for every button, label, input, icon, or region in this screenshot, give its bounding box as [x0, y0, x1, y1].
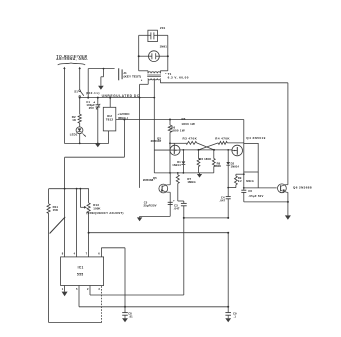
- diode D2: [227, 150, 229, 162]
- wire - jack feed horizontal: [88, 68, 114, 70]
- node - right base node: [213, 149, 215, 151]
- wire - +12V bus: [116, 119, 244, 121]
- wire - pot top bus: [49, 188, 89, 190]
- svg-text:25μF/25V: 25μF/25V: [144, 204, 157, 208]
- node - C1 bottom: [97, 143, 99, 145]
- wire - IC pin line: [76, 189, 78, 257]
- transformer T1 primary winding: [148, 72, 160, 74]
- adjust slash: [50, 217, 66, 234]
- wire - T1 left line down to Q5 base: [139, 84, 141, 188]
- wire - neon right lead: [159, 55, 168, 57]
- wire - bottom left return: [49, 322, 102, 324]
- node - jack tap: [103, 68, 105, 70]
- capacitor C6: [243, 172, 245, 190]
- svg-text:(KEY TEST): (KEY TEST): [124, 74, 142, 78]
- wire - relay right edge down to Q6 base: [257, 172, 259, 188]
- capacitor C3: [178, 200, 184, 202]
- wire - T1 secondary left end down: [147, 80, 149, 85]
- wire - T1 secondary right end to long top wire: [159, 80, 161, 83]
- relay box K1: [244, 143, 258, 172]
- svg-text:1800 1W: 1800 1W: [181, 122, 195, 126]
- wire - +12V down relay left edge: [243, 120, 245, 144]
- svg-text:.05μF 50V: .05μF 50V: [248, 194, 263, 198]
- svg-text:R6 180K: R6 180K: [199, 157, 211, 161]
- resistor R6 180K left: [198, 150, 200, 159]
- svg-text:+: +: [173, 199, 175, 203]
- node - D1 top: [183, 149, 185, 151]
- resistor R3 470K: [170, 142, 186, 144]
- svg-text:R3 470K: R3 470K: [183, 136, 198, 140]
- svg-text:ANTENNA, GND.: ANTENNA, GND.: [56, 57, 88, 61]
- node - D2 top: [227, 149, 229, 151]
- switch S1: [79, 90, 81, 92]
- svg-text:.047: .047: [174, 206, 180, 210]
- transformer T1 core: [147, 74, 161, 76]
- wire - neon left lead: [139, 55, 149, 57]
- svg-text:.01: .01: [129, 315, 133, 319]
- wire - Q5 collector up to rail: [167, 184, 170, 186]
- svg-text:IC1: IC1: [78, 266, 84, 270]
- resistor R5 1800: [169, 120, 171, 126]
- transistor Q6: [278, 184, 287, 193]
- resistor R2: [79, 98, 81, 115]
- resistor R8 180K right: [213, 150, 215, 159]
- svg-text:1800 1W: 1800 1W: [171, 129, 185, 133]
- node - R5 top: [169, 119, 171, 121]
- node - left base node: [198, 149, 200, 151]
- diode D1: [182, 150, 184, 162]
- resistor R7 1MEG: [177, 173, 179, 175]
- wire - IC1 supply branch: [123, 120, 125, 158]
- LED1: [79, 123, 81, 127]
- svg-text:2.2: 2.2: [238, 179, 242, 183]
- ground - center multivibrator: [199, 173, 201, 174]
- wire - pin6 feed corner: [100, 248, 102, 257]
- svg-text:1N914: 1N914: [172, 163, 181, 167]
- ground - Q6: [285, 215, 291, 219]
- svg-text:#01: #01: [160, 26, 166, 30]
- wire - multivibrator bottom rail: [154, 172, 214, 174]
- node - R3 tap: [169, 142, 171, 144]
- ground - jack: [98, 86, 104, 90]
- svg-text:180K: 180K: [214, 164, 221, 168]
- wire - oscillator box top left: [139, 34, 151, 36]
- transistor Q4: [232, 145, 243, 156]
- wire - pin5 to bottom wire: [78, 286, 80, 307]
- node - S1 bottom junction: [79, 97, 81, 99]
- wire - mid horizontal c3-c4: [184, 217, 228, 219]
- antenna arrow right: [79, 67, 81, 69]
- svg-text:1N91: 1N91: [160, 45, 168, 49]
- wire - unregulated DC bus: [80, 97, 155, 99]
- ground - Q5: [139, 216, 141, 217]
- wire - regulator ground: [108, 131, 110, 144]
- wire - box right to T1: [167, 69, 169, 71]
- svg-text:Q5: Q5: [153, 176, 157, 180]
- wire - top right vertical down to Q6 collector: [287, 83, 289, 185]
- node - LED bottom: [79, 143, 81, 145]
- node - on dc bus at 139.6: [139, 97, 141, 99]
- crystal Y1: [148, 30, 158, 41]
- svg-text:2N5088: 2N5088: [143, 178, 154, 182]
- wire - Q6 emitter down to ground: [286, 191, 288, 193]
- resistor R4 470K: [218, 141, 227, 144]
- transformer T1 secondary winding: [148, 78, 160, 80]
- resistor R9 MEG: [236, 173, 244, 175]
- wire - third antenna line down: [87, 69, 89, 98]
- wire - base bus between Q3 Q4: [180, 149, 233, 151]
- ground - main: [95, 144, 100, 148]
- wire - Q5 emitter to ground: [140, 215, 171, 217]
- wire - cross couple diag 1: [197, 143, 214, 150]
- wire - ground bus under regulator: [64, 142, 108, 144]
- potentiometer R13: [88, 189, 90, 203]
- svg-text:Q4 2N5019: Q4 2N5019: [246, 136, 265, 140]
- svg-text:Q6 2N3688: Q6 2N3688: [293, 185, 312, 189]
- resistor R11: [48, 189, 50, 204]
- svg-text:(FREQUENCY ADJUST): (FREQUENCY ADJUST): [86, 211, 123, 215]
- wire - C6 bottom to Q6 emitter: [244, 201, 288, 203]
- wire - pin2 to feedback wire: [89, 286, 91, 296]
- transistor Q3: [154, 149, 174, 151]
- wire - long mid horizontal: [89, 232, 229, 234]
- node - center tap corner: [153, 97, 155, 99]
- svg-text:7812: 7812: [106, 118, 114, 122]
- svg-text:6.3 V, 60,00: 6.3 V, 60,00: [168, 76, 189, 80]
- svg-text:UNREGULATED DC: UNREGULATED DC: [102, 94, 140, 98]
- svg-text:.047: .047: [219, 198, 225, 202]
- regulator IC2 box: [103, 107, 116, 131]
- brace: [58, 63, 85, 65]
- jack J1 key test: [118, 68, 120, 80]
- antenna arrow left: [63, 67, 65, 69]
- wire - Q5 emitter down: [167, 191, 170, 193]
- wire - antenna left line down: [63, 69, 65, 144]
- wire - jack tap down with jog: [103, 69, 105, 77]
- node - +12V branch to IC1 supply: [123, 119, 125, 121]
- svg-text:2N5087: 2N5087: [151, 139, 162, 143]
- svg-text:555: 555: [77, 272, 84, 276]
- wire - C8 branch down: [124, 248, 126, 313]
- neon lamp V1: [149, 51, 160, 62]
- svg-text:LED1: LED1: [70, 132, 78, 136]
- svg-text:S1: S1: [74, 90, 78, 94]
- node - third line to DC bus: [87, 97, 89, 99]
- capacitor C8: [122, 312, 128, 314]
- wire - T1 center tap down: [153, 80, 155, 98]
- wire - cross couple diag 2: [199, 143, 219, 150]
- svg-text:1MEG: 1MEG: [187, 180, 195, 184]
- transistor Q5: [159, 184, 168, 193]
- ground - IC1 pin1: [64, 286, 66, 292]
- capacitor C7: [227, 233, 229, 313]
- svg-text:15K: 15K: [53, 208, 59, 212]
- svg-text:(C10 .1 L): (C10 .1 L): [86, 91, 100, 95]
- wire - C3 line down to IC pin wire: [183, 218, 185, 295]
- wire - center tap line down to Q3 base: [153, 98, 155, 173]
- svg-text:R4 470K: R4 470K: [215, 136, 230, 140]
- svg-text:1N914: 1N914: [231, 164, 240, 168]
- node - neon right junction: [167, 55, 169, 57]
- wire - regulator input from bus: [109, 98, 111, 108]
- IC1 box: [61, 257, 104, 286]
- capacitor C5: [168, 201, 173, 203]
- svg-text:MEG: MEG: [246, 179, 254, 183]
- svg-text:R5: R5: [182, 117, 186, 121]
- capacitor C4: [226, 196, 231, 198]
- wire - antenna right line down to switch: [79, 69, 81, 90]
- wire - wiper feed: [79, 189, 81, 208]
- capacitor C1: [97, 98, 99, 105]
- node - neon left junction: [138, 55, 140, 57]
- wire - oscillator box right vertical: [167, 35, 169, 69]
- svg-text:C6: C6: [248, 189, 252, 193]
- wire - oscillator box left vertical: [138, 35, 140, 69]
- svg-text:100K: 100K: [93, 206, 101, 210]
- wire - dashed up to IC1: [101, 286, 103, 323]
- svg-text:25V: 25V: [89, 106, 94, 110]
- wire - R5 down to rail: [169, 132, 171, 173]
- wire - box left to T1: [138, 69, 140, 71]
